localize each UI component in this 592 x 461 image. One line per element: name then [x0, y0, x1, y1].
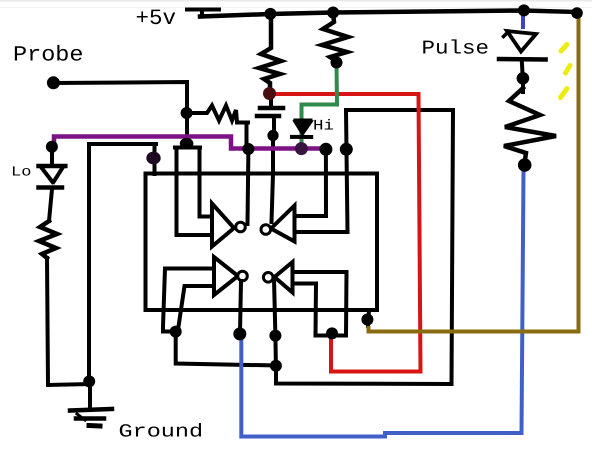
op-amp U1C inverter bottom-left [214, 257, 238, 295]
node probe terminal [47, 76, 60, 89]
svg-text:Ground: Ground [119, 421, 204, 442]
svg-text:Probe: Probe [13, 43, 84, 68]
node probe R3 [181, 107, 193, 119]
wire blue feedback [241, 171, 523, 437]
wire U1C output down [240, 281, 241, 333]
diode D2 Hi LED [290, 121, 313, 138]
wire U1C input 2 [178, 286, 214, 330]
resistor R1 pull-up [259, 14, 281, 89]
node Lo top [46, 141, 58, 153]
node red U [326, 327, 338, 339]
border top shade [0, 0, 592, 2]
wire input bracket [175, 148, 212, 236]
wire ground leg left [89, 144, 156, 381]
wire U1B input 2 and feedback top [276, 110, 453, 384]
node rail pulse [518, 4, 530, 16]
node pulse LED bottom [517, 72, 530, 85]
capacitor C1 plates [257, 108, 283, 116]
node below U1C in [170, 326, 182, 338]
IC U1 body [146, 174, 378, 311]
capacitor C1 top lead [269, 99, 273, 106]
wire green Hi branch [302, 65, 338, 120]
node dots [46, 4, 583, 387]
wire purple probe bus [54, 137, 330, 149]
wire +5v rail [200, 11, 577, 17]
ground symbol [70, 409, 112, 411]
wire U1D input 1 U loop [293, 272, 347, 336]
svg-text:+5v: +5v [136, 6, 177, 31]
op-amp U1B inverter top-right [271, 206, 295, 242]
wire cap to IC pin through purple [272, 140, 274, 222]
LED light rays yellow [561, 45, 571, 98]
node purple end [319, 143, 332, 156]
op-amp U1A inverter top-left [212, 204, 234, 247]
node rail right end [571, 7, 583, 19]
svg-text:Hi: Hi [313, 118, 334, 135]
wire R4 to ground rail [47, 258, 89, 385]
wire IC pin 7 stub [153, 144, 157, 174]
diode D1 Lo LED [39, 164, 66, 169]
svg-text:Lo: Lo [11, 165, 31, 181]
wire Lo branch top [50, 147, 54, 162]
node blue out [233, 327, 246, 340]
resistor R3 series [193, 106, 248, 123]
wire olive feedback [369, 17, 579, 332]
node purple R3 [242, 143, 254, 155]
node bracket junction [180, 138, 194, 149]
wire ground drop [88, 384, 92, 408]
node cap bottom [267, 130, 278, 141]
wire LED to R5 [521, 83, 525, 92]
node U1D out 2 [270, 360, 282, 372]
op-amp U1D inverter bottom-right [275, 262, 293, 293]
wire Lo LED to R4 [49, 189, 52, 221]
node olive pin [361, 314, 373, 326]
node pin7 blob [146, 152, 160, 165]
wire U1D output down [274, 279, 276, 366]
capacitor C1 bottom lead [272, 118, 276, 131]
node U1D out 1 [269, 330, 281, 342]
wire probe lead [53, 82, 187, 143]
resistor R5 pulse [504, 88, 556, 160]
power symbol +5v bar [187, 10, 219, 17]
node purple right [340, 143, 353, 156]
svg-text:Pulse: Pulse [422, 37, 490, 60]
wire blue stub LED top [521, 14, 525, 29]
node pulse R5 bottom [518, 158, 532, 172]
node R2 green [331, 57, 343, 69]
wire U1C input 1 [163, 269, 214, 332]
diode D3 pulse LED [507, 31, 536, 52]
wire U1B input 1 [295, 150, 327, 216]
node rail R1 [264, 8, 276, 20]
wire node to inverter U1A output bubble [246, 149, 251, 224]
node R1 cap red (dark red) [263, 87, 276, 100]
resistor R4 Lo [39, 221, 57, 258]
wire node row to U1C inputs [176, 332, 276, 366]
wire IC pin to olive node [368, 310, 369, 326]
wire R3 down to purple node [245, 123, 249, 149]
node rail R2 [327, 7, 339, 19]
node purple green (dark) [295, 142, 308, 155]
node ground junction [83, 375, 95, 387]
wire red feedback [270, 94, 421, 372]
resistor R2 pull-up [322, 13, 348, 62]
